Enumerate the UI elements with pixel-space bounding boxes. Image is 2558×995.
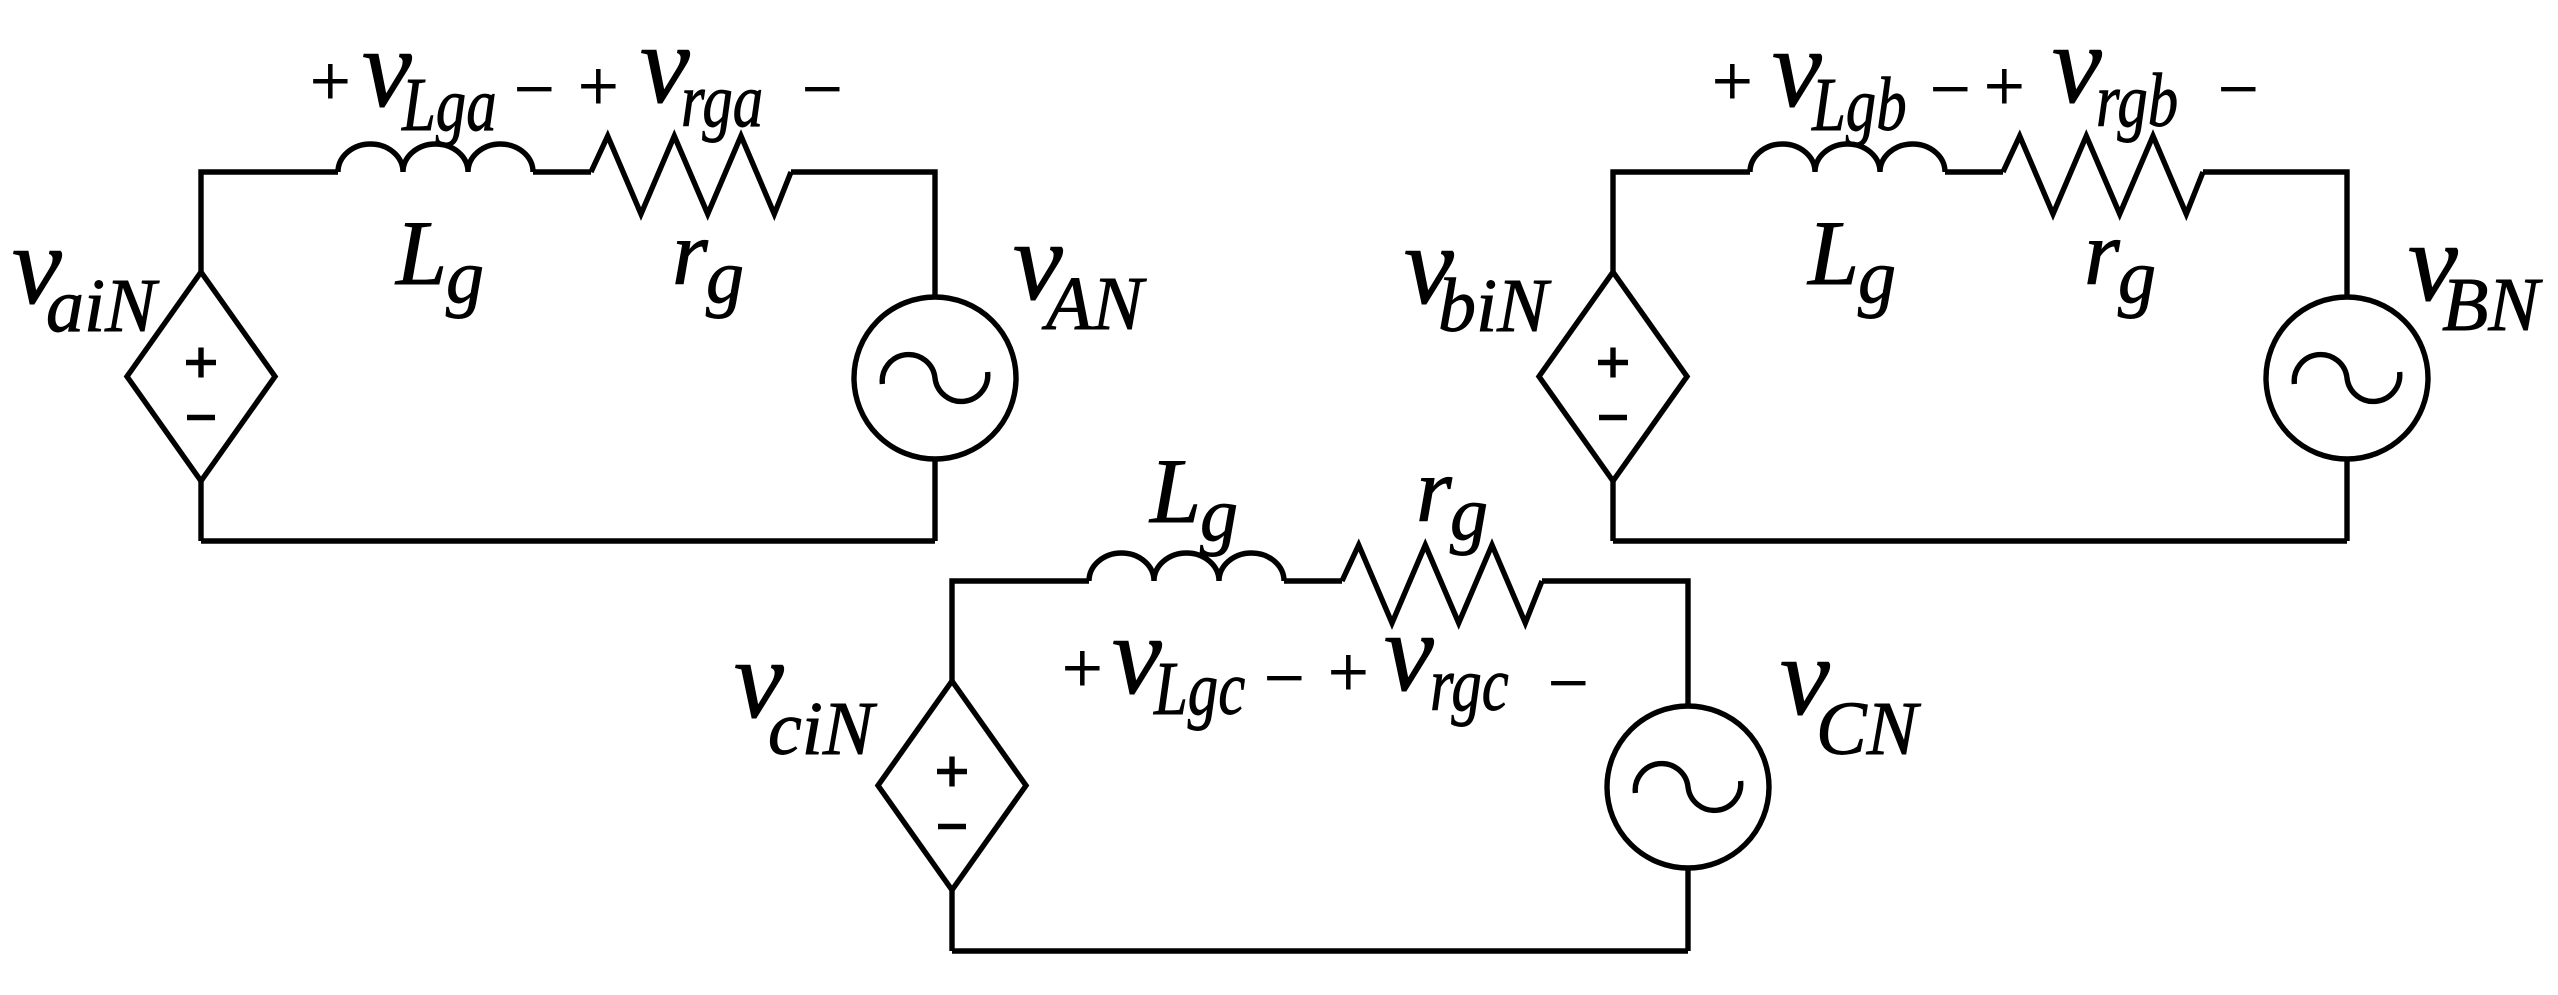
wire bottom-left (phase a) xyxy=(198,481,203,541)
wire bottom-right (phase a) xyxy=(932,459,937,541)
plus sign inside diamond (phase c) xyxy=(937,757,967,787)
plus sign inside diamond (phase b) xyxy=(1598,348,1628,378)
svg-text:−: − xyxy=(2218,49,2259,129)
resistor rg (phase b) xyxy=(2003,136,2203,214)
svg-text:−: − xyxy=(802,49,843,129)
svg-text:g: g xyxy=(706,235,744,319)
wire top-right (phase c) xyxy=(1542,581,1688,706)
AC source circle (phase c) xyxy=(1607,706,1769,868)
dependent source diamond (phase b) xyxy=(1539,272,1687,481)
svg-text:v: v xyxy=(2052,3,2102,127)
label vAN xyxy=(1013,200,1147,346)
svg-text:Lga: Lga xyxy=(401,63,496,147)
label vciN xyxy=(734,618,878,771)
svg-text:+: + xyxy=(310,41,351,121)
label +vrga- xyxy=(578,3,843,143)
label vBN xyxy=(2408,201,2543,347)
svg-text:aiN: aiN xyxy=(46,264,160,348)
svg-text:ciN: ciN xyxy=(768,687,878,771)
svg-text:+: + xyxy=(1328,632,1369,712)
label rg (phase b) xyxy=(2084,202,2156,319)
svg-text:L: L xyxy=(1148,440,1201,542)
sine symbol inside AC source (phase a) xyxy=(882,355,988,402)
resistor rg (phase c) xyxy=(1342,545,1542,623)
plus sign inside diamond (phase a) xyxy=(186,348,216,378)
label Lg (phase c) xyxy=(1148,440,1238,557)
svg-text:−: − xyxy=(514,49,555,129)
svg-text:AN: AN xyxy=(1041,262,1147,346)
svg-text:r: r xyxy=(2084,202,2121,304)
wire bottom-left (phase c) xyxy=(949,890,954,951)
label vCN xyxy=(1780,615,1922,771)
svg-text:v: v xyxy=(1384,591,1434,715)
wire top-right (phase b) xyxy=(2203,172,2347,297)
minus sign inside diamond (phase c) xyxy=(938,824,966,829)
inductor Lg (phase a) xyxy=(338,144,533,172)
inductor Lg (phase c) xyxy=(1089,553,1284,581)
label Lg (phase a) xyxy=(394,202,484,319)
svg-text:−: − xyxy=(1264,638,1305,718)
svg-text:+: + xyxy=(1062,628,1103,708)
dependent source diamond (phase a) xyxy=(127,272,275,481)
svg-text:+: + xyxy=(1984,46,2025,126)
wire coil-to-resistor (phase a) xyxy=(533,169,591,174)
svg-text:rga: rga xyxy=(681,59,763,143)
wire bottom-left (phase b) xyxy=(1610,481,1615,541)
wire bottom (phase c) xyxy=(952,948,1688,953)
dependent source diamond (phase c) xyxy=(878,681,1026,890)
label rg (phase a) xyxy=(672,202,744,319)
inductor Lg (phase b) xyxy=(1750,144,1945,172)
label +vrgb- xyxy=(1984,3,2259,143)
wire coil-to-resistor (phase b) xyxy=(1945,169,2003,174)
sine symbol inside AC source (phase b) xyxy=(2294,355,2400,402)
svg-text:g: g xyxy=(1200,473,1238,557)
wire top-right (phase a) xyxy=(791,172,935,297)
svg-text:biN: biN xyxy=(1438,264,1552,348)
svg-text:L: L xyxy=(394,202,447,304)
svg-text:rgb: rgb xyxy=(2096,59,2178,143)
label +vLgb- xyxy=(1712,7,1971,147)
label +vLga- xyxy=(310,7,555,147)
svg-text:−: − xyxy=(1548,643,1589,723)
label vaiN xyxy=(12,204,160,348)
svg-text:+: + xyxy=(1712,41,1753,121)
AC source circle (phase b) xyxy=(2266,297,2428,459)
wire bottom (phase b) xyxy=(1613,538,2347,543)
label vbiN xyxy=(1404,204,1552,348)
svg-text:Lgc: Lgc xyxy=(1153,647,1245,731)
wire top-left (phase c) xyxy=(952,581,1089,681)
svg-text:−: − xyxy=(1930,49,1971,129)
wire top-left (phase b) xyxy=(1613,172,1750,272)
label +vLgc- xyxy=(1062,594,1305,731)
sine symbol inside AC source (phase c) xyxy=(1635,764,1741,811)
label rg (phase c) xyxy=(1416,439,1488,556)
svg-text:CN: CN xyxy=(1816,687,1922,771)
label Lg (phase b) xyxy=(1806,202,1896,319)
label +vrgc- xyxy=(1328,591,1589,727)
svg-text:L: L xyxy=(1806,202,1859,304)
svg-text:BN: BN xyxy=(2442,263,2543,347)
resistor rg (phase a) xyxy=(591,136,791,214)
wire top-left (phase a) xyxy=(201,172,338,272)
svg-text:Lgb: Lgb xyxy=(1811,63,1906,147)
svg-text:r: r xyxy=(672,202,709,304)
minus sign inside diamond (phase b) xyxy=(1599,415,1627,420)
svg-text:+: + xyxy=(578,46,619,126)
wire bottom-right (phase c) xyxy=(1685,868,1690,951)
AC source circle (phase a) xyxy=(854,297,1016,459)
wire bottom (phase a) xyxy=(201,538,935,543)
svg-text:rgc: rgc xyxy=(1430,643,1509,727)
svg-text:g: g xyxy=(1450,472,1488,556)
svg-text:r: r xyxy=(1416,439,1453,541)
wire coil-to-resistor (phase c) xyxy=(1284,578,1342,583)
minus sign inside diamond (phase a) xyxy=(187,415,215,420)
svg-text:g: g xyxy=(2118,235,2156,319)
svg-text:g: g xyxy=(446,235,484,319)
wire bottom-right (phase b) xyxy=(2344,459,2349,541)
svg-text:g: g xyxy=(1858,235,1896,319)
